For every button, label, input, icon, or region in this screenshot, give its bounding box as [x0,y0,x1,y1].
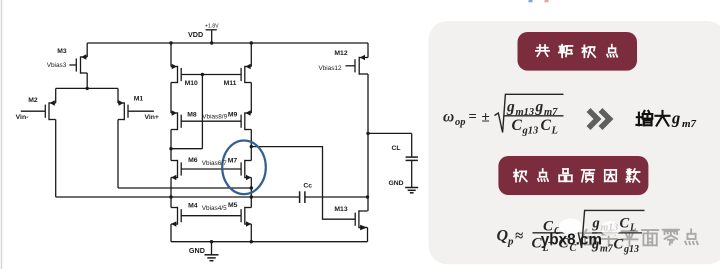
svg-text:Vbias4/5: Vbias4/5 [202,205,227,212]
svg-text:ybx8.cm: ybx8.cm [541,231,602,248]
svg-text:M5: M5 [228,202,238,209]
svg-text:g: g [592,216,600,232]
svg-text:M11: M11 [224,80,237,87]
svg-text:L: L [629,223,636,234]
svg-text:CL: CL [391,145,400,152]
svg-text:≈: ≈ [515,229,523,245]
svg-text:C: C [614,237,624,253]
svg-text:M13: M13 [334,206,347,213]
svg-text:VDD: VDD [188,30,203,39]
svg-text:Vin-: Vin- [16,114,29,121]
svg-text:±: ± [482,110,490,126]
svg-text:C: C [541,117,552,134]
svg-text:Vbias12: Vbias12 [318,65,342,72]
svg-text:m7: m7 [682,118,697,130]
svg-text:Vin+: Vin+ [144,114,158,121]
svg-text:GND: GND [388,180,403,187]
svg-text:Vbias6/7: Vbias6/7 [202,160,227,167]
svg-text:M4: M4 [188,203,198,210]
svg-text:g: g [671,109,680,128]
svg-text:M7: M7 [228,158,238,165]
svg-text:C: C [512,117,523,134]
svg-text:ω: ω [443,109,454,126]
svg-text:Vbias3: Vbias3 [47,62,67,69]
svg-text:g13: g13 [623,244,639,255]
svg-text:Q: Q [497,228,509,245]
svg-text:M6: M6 [188,157,198,164]
svg-text:M3: M3 [57,48,67,55]
svg-text:g: g [535,99,544,116]
svg-text:C: C [620,216,630,232]
svg-text:M1: M1 [134,95,144,102]
svg-text:g: g [506,99,515,116]
svg-text:M8: M8 [187,111,197,118]
svg-text:M9: M9 [228,111,238,118]
svg-text:GND: GND [189,246,205,255]
svg-text:+1.8V: +1.8V [205,24,219,30]
svg-text:L: L [551,126,558,137]
svg-text:m7: m7 [600,244,614,255]
svg-text:M2: M2 [28,97,38,104]
svg-text:=: = [469,109,477,125]
svg-text:Cc: Cc [303,182,312,189]
svg-text:p: p [507,236,514,248]
svg-text:Vbias8/9: Vbias8/9 [202,114,227,121]
svg-text:M10: M10 [185,80,198,87]
svg-text:M12: M12 [334,50,347,57]
svg-text:op: op [455,117,466,128]
svg-text:g13: g13 [522,126,539,137]
